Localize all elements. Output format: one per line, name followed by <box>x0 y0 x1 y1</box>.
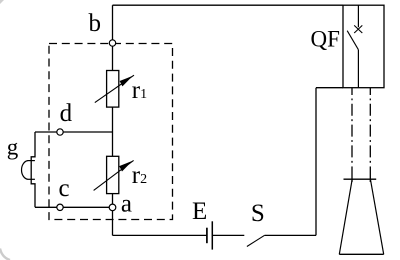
horn top line <box>344 178 377 180</box>
wire riser to QF bottom <box>316 87 343 89</box>
earphone g top tick <box>27 160 35 162</box>
terminal a <box>109 204 116 211</box>
wire node d horizontal <box>35 131 113 133</box>
rheostat r1 arrow <box>95 75 134 102</box>
breaker QF top stub <box>357 5 359 27</box>
breaker QF blade <box>347 31 358 50</box>
earphone g chord <box>30 161 32 180</box>
breaker QF lower conductor <box>357 50 359 88</box>
horn bottom <box>339 253 383 255</box>
svg-text:g: g <box>7 135 19 160</box>
wire right riser up to QF <box>315 88 317 236</box>
rheostat r1 body <box>107 71 119 108</box>
corner arc bottom-left <box>0 249 10 260</box>
svg-text:E: E <box>192 198 207 225</box>
corner smudge top-left <box>0 0 4 4</box>
earphone g bottom tick <box>27 178 35 180</box>
dash-dot line left end dash <box>351 167 353 182</box>
dash-dot line right end dash <box>369 167 371 182</box>
wire r2 to node a <box>112 194 114 205</box>
wire earphone down to c <box>31 179 35 207</box>
wire b drop to r1 <box>112 5 114 70</box>
wire top bus from b to QF <box>113 4 344 6</box>
battery E short plate <box>206 228 208 244</box>
terminal b <box>109 40 115 46</box>
breaker QF contact X <box>354 25 362 33</box>
svg-text:QF: QF <box>311 26 340 51</box>
rheostat r2 body <box>107 156 119 193</box>
switch S blade <box>247 235 265 246</box>
battery E long plate <box>211 221 213 249</box>
wire bottom bus a to battery <box>113 234 207 236</box>
horn right side <box>370 179 383 254</box>
terminal c <box>57 204 63 210</box>
wire d down to earphone <box>31 132 35 161</box>
svg-text:a: a <box>121 191 132 218</box>
wire battery to switch <box>212 234 244 236</box>
svg-text:d: d <box>60 100 73 127</box>
earphone g arc <box>22 161 28 180</box>
dash-dot line left <box>351 88 353 167</box>
breaker QF box <box>343 5 384 88</box>
wire switch to riser <box>265 234 316 236</box>
wire node a down to bottom bus <box>112 211 114 236</box>
wire r1 to r2 through node d <box>112 107 114 156</box>
svg-text:c: c <box>59 175 70 202</box>
wire c horizontal to a <box>35 206 113 208</box>
horn left side <box>339 179 352 254</box>
svg-text:S: S <box>251 200 265 227</box>
terminal d <box>57 129 63 135</box>
rheostat r2 arrow <box>94 160 134 190</box>
dash-dot line right <box>369 88 371 167</box>
dashed enclosure box <box>49 44 173 220</box>
svg-text:b: b <box>89 10 102 37</box>
